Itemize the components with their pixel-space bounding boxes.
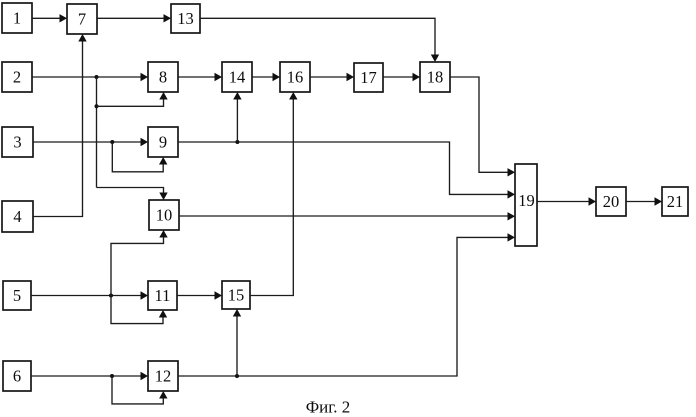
block 10 <box>149 200 179 230</box>
wire branch into 10 top <box>97 188 168 201</box>
svg-text:1: 1 <box>13 9 21 28</box>
junction on wire 6-12 <box>110 374 114 378</box>
svg-text:3: 3 <box>13 133 21 152</box>
svg-text:12: 12 <box>155 367 172 386</box>
svg-text:17: 17 <box>360 68 377 87</box>
wire 19 to 20 <box>537 197 596 205</box>
wire 15 to 16 bottom <box>250 92 298 296</box>
svg-text:11: 11 <box>155 286 171 305</box>
block 13 <box>171 4 200 33</box>
wire 10 to 19 input 3 <box>179 212 515 220</box>
svg-text:10: 10 <box>156 206 173 225</box>
svg-text:6: 6 <box>13 367 21 386</box>
wire 8 to 14 <box>178 73 222 81</box>
block 19 <box>515 164 537 246</box>
block 15 <box>222 281 250 309</box>
svg-text:4: 4 <box>13 207 21 226</box>
block 6 <box>3 361 31 391</box>
wire loop into 8 bottom <box>97 92 168 106</box>
svg-text:2: 2 <box>13 68 21 87</box>
wire branch up into 15 bottom <box>233 309 241 376</box>
svg-text:5: 5 <box>13 286 21 305</box>
svg-text:16: 16 <box>287 68 304 87</box>
block 20 <box>596 187 626 216</box>
svg-text:19: 19 <box>518 191 535 210</box>
wire 17 to 18 <box>383 73 420 81</box>
svg-text:9: 9 <box>159 133 167 152</box>
block 17 <box>354 63 383 92</box>
block 9 <box>148 127 178 157</box>
wire 16 to 17 <box>310 73 354 81</box>
svg-text:Фиг. 2: Фиг. 2 <box>306 398 351 417</box>
block 8 <box>148 62 178 92</box>
block 18 <box>420 62 450 92</box>
block 16 <box>280 62 310 92</box>
svg-text:7: 7 <box>78 10 86 29</box>
junction on wire 2-8 at branch down <box>95 75 99 79</box>
wire 3 to 9 <box>33 138 148 146</box>
wire 13 to 18 top <box>200 18 439 62</box>
wire branch up into 14 bottom <box>233 92 241 142</box>
caption Fig. 2 <box>306 398 351 417</box>
wire 20 to 21 <box>626 197 662 205</box>
wire 4 to 7 bottom <box>33 34 87 217</box>
wire loop into 11 bottom <box>111 296 167 324</box>
wire loop into 9 bottom <box>112 142 167 172</box>
block 7 <box>67 4 97 34</box>
wire 1 to 7 <box>32 14 67 22</box>
block 3 <box>2 127 33 157</box>
svg-text:14: 14 <box>229 68 246 87</box>
block 1 <box>2 3 32 33</box>
block 2 <box>2 62 32 92</box>
wire 14 to 16 <box>252 73 280 81</box>
junction on branch for loop to 8 <box>95 104 99 108</box>
svg-text:8: 8 <box>159 68 167 87</box>
wire 12 to 19 input 4 <box>178 233 515 376</box>
wire 11 to 15 <box>177 291 222 299</box>
wire 6 to 12 <box>31 372 148 380</box>
block 12 <box>148 361 178 391</box>
block 5 <box>3 281 31 310</box>
junction on wire 3-9 for loop to 9 <box>110 140 114 144</box>
wire branch up into 10 bottom <box>111 230 168 296</box>
wire 9 to 19 input 2 <box>178 142 515 199</box>
block 14 <box>222 62 252 92</box>
wire 18 to 19 input 1 <box>450 77 515 177</box>
junction on wire 5-11 <box>109 294 113 298</box>
block 4 <box>2 201 33 232</box>
wire loop into 12 bottom <box>112 376 168 404</box>
wire 2 to 8 <box>32 73 148 81</box>
wire 5 to 11 <box>31 291 148 299</box>
svg-text:18: 18 <box>427 68 444 87</box>
svg-text:15: 15 <box>228 286 245 305</box>
junction on wire 12 output for branch to 15 <box>235 374 239 378</box>
wire 7 to 13 <box>97 14 171 22</box>
svg-text:21: 21 <box>667 192 684 211</box>
wire branch from node 2 down to corner <box>96 77 98 188</box>
svg-text:13: 13 <box>177 9 194 28</box>
junction on wire 9 output for branch to 14 <box>235 140 239 144</box>
block 11 <box>148 281 177 310</box>
block 21 <box>662 187 688 216</box>
svg-text:20: 20 <box>603 192 620 211</box>
